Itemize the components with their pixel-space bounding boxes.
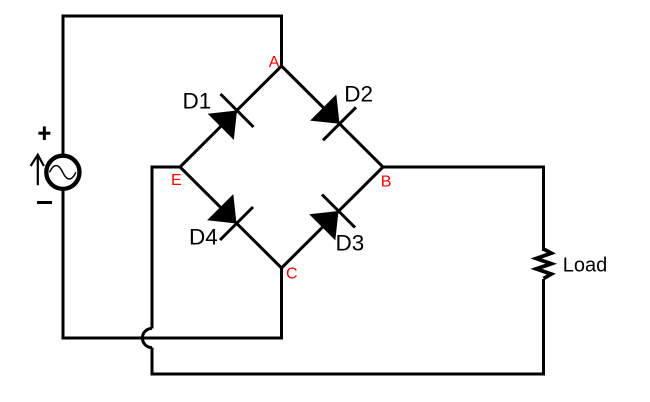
resistor Load xyxy=(536,249,551,279)
svg-text:B: B xyxy=(381,174,392,191)
wire node B to load top xyxy=(383,167,544,251)
wire crossover drop to bottom rail xyxy=(151,348,154,375)
svg-text:D2: D2 xyxy=(344,82,373,107)
diode D1 xyxy=(208,94,254,140)
wire lower rail to node C xyxy=(62,268,282,338)
svg-text:D4: D4 xyxy=(189,225,218,250)
svg-text:D3: D3 xyxy=(336,231,365,256)
wire node E to crossover drop xyxy=(152,167,180,329)
diode D3 xyxy=(309,195,355,241)
diode D4 xyxy=(207,194,253,240)
plus polarity mark xyxy=(38,126,50,140)
minus polarity mark xyxy=(37,201,52,204)
wire bridge diamond (A-B-C-E) xyxy=(180,66,383,268)
diode D2 xyxy=(310,94,356,140)
svg-text:Load: Load xyxy=(563,255,608,277)
svg-text:E: E xyxy=(171,172,182,189)
svg-text:C: C xyxy=(286,266,298,283)
current direction arrow xyxy=(31,155,44,185)
wire source bottom to lower rail xyxy=(62,175,65,338)
wire bottom rail (to load bottom) xyxy=(151,279,544,374)
svg-text:A: A xyxy=(269,54,280,71)
wire top (source top to node A branch) xyxy=(63,16,282,170)
svg-text:D1: D1 xyxy=(183,89,212,114)
wire crossover hop xyxy=(142,328,152,347)
ac source V1 (circle with sine) xyxy=(46,156,79,189)
